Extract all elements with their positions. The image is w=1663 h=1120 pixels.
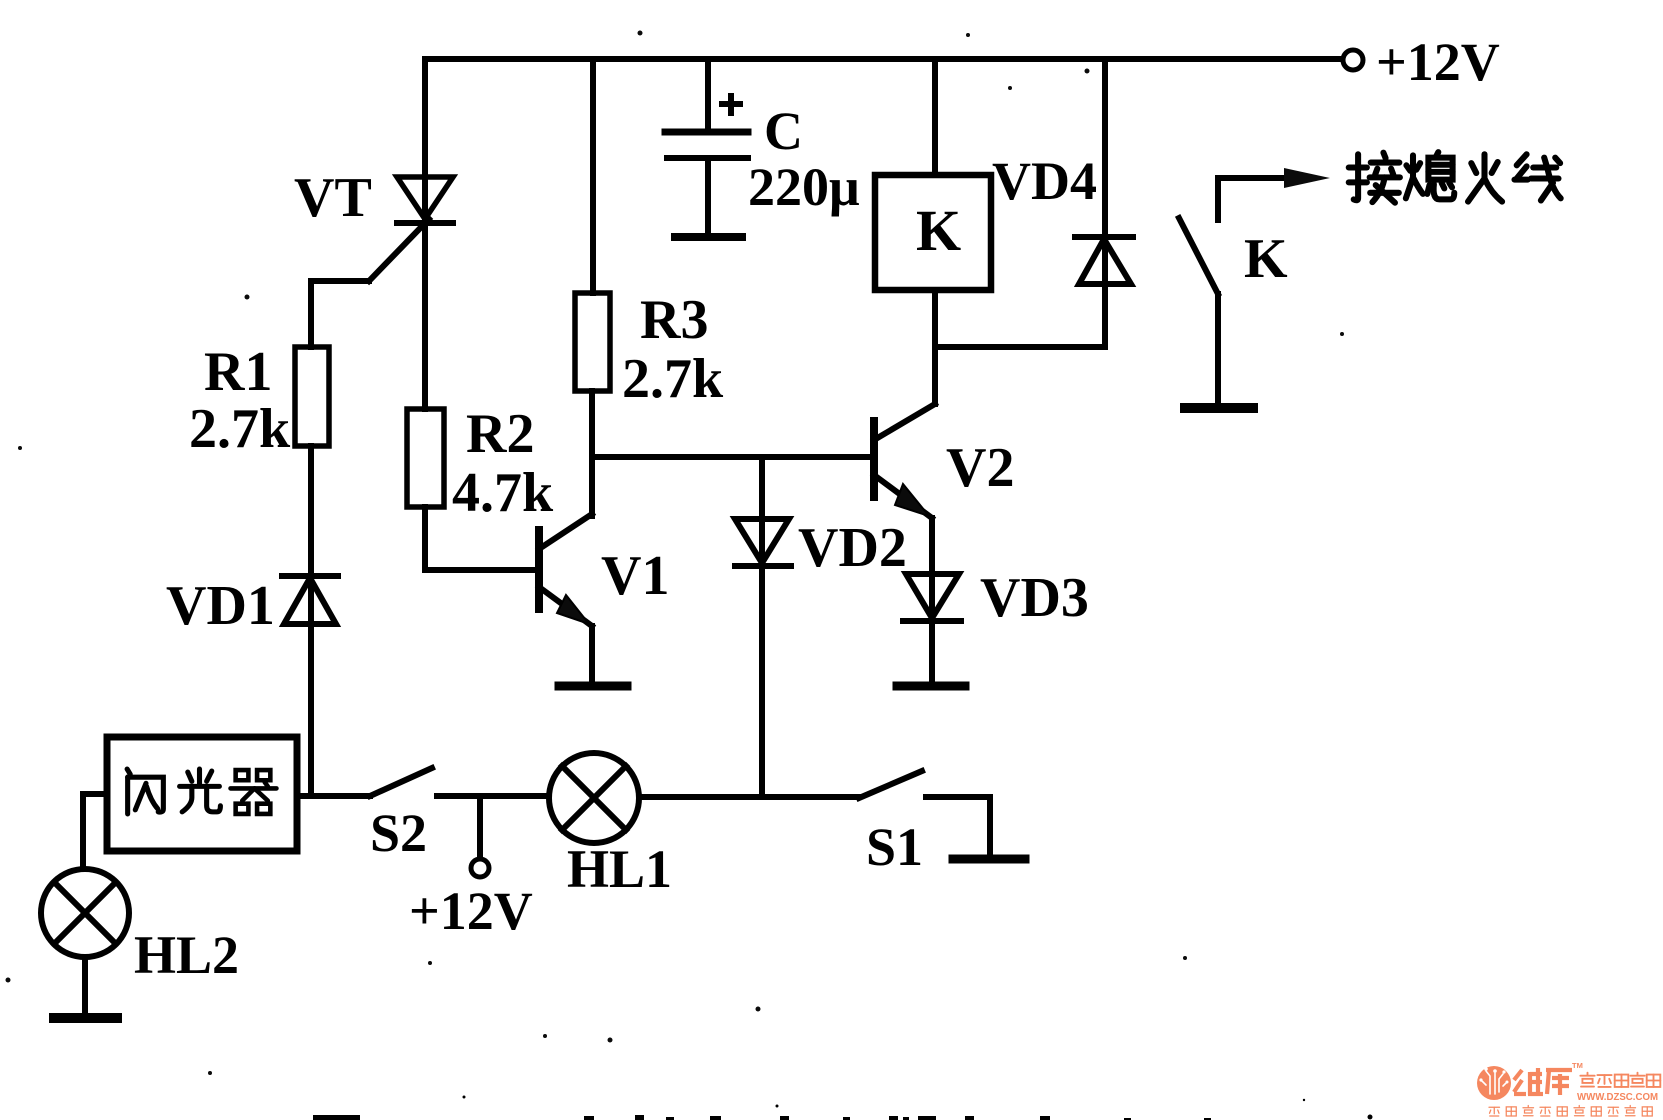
- switch S1 blade: [859, 771, 922, 798]
- wire gate to R1: [308, 281, 314, 347]
- diode VD3: [903, 574, 961, 621]
- wire VD2 drop: [759, 457, 765, 797]
- svg-text:220μ: 220μ: [748, 157, 860, 217]
- node +12V terminal circle: [1343, 50, 1363, 70]
- capacitor C: [665, 59, 748, 237]
- box flasher 闪光器: [107, 737, 297, 851]
- svg-text:S2: S2: [370, 803, 427, 863]
- svg-text:2.7k: 2.7k: [189, 398, 291, 460]
- switch S2 blade: [370, 768, 432, 796]
- svg-text:VT: VT: [294, 167, 372, 229]
- svg-text:VD2: VD2: [798, 517, 907, 579]
- thyristor VT: [311, 177, 453, 409]
- switch K blade: [1179, 218, 1218, 294]
- 专业电子元器件交易网站: [1489, 1106, 1652, 1117]
- wire K switch arrow lead: [1218, 178, 1295, 220]
- diode VD4: [1075, 237, 1133, 284]
- ground VD3: [897, 682, 965, 691]
- diode VD1: [282, 576, 338, 624]
- svg-text:+12V: +12V: [409, 881, 533, 941]
- wire R3 branch from rail: [590, 59, 596, 293]
- svg-text:S1: S1: [866, 817, 923, 877]
- svg-text:HL2: HL2: [134, 925, 239, 985]
- wire R1 to VD1: [308, 446, 314, 794]
- wire HL2 to ground: [82, 957, 88, 1014]
- wire K switch to ground: [1215, 294, 1221, 403]
- label 接熄火线 connect-to-flameout-wire: [1349, 153, 1400, 203]
- svg-text:C: C: [764, 101, 803, 161]
- svg-text:TM: TM: [1572, 1061, 1583, 1070]
- wire flasher right to S2: [297, 793, 370, 799]
- watermark logo 维库电子市场网: [1477, 1061, 1660, 1116]
- wire HL1 to S1: [639, 794, 859, 800]
- label 闪光器 flasher: [127, 769, 163, 814]
- svg-text:HL1: HL1: [567, 839, 672, 899]
- svg-text:V1: V1: [601, 545, 669, 607]
- lamp HL2: [41, 869, 129, 957]
- caption fragment marks (cut-off text at bottom): [313, 1096, 1373, 1120]
- svg-text:V2: V2: [946, 437, 1014, 499]
- ground S1 contact bar: [953, 855, 1025, 864]
- ground HL2: [54, 1013, 117, 1023]
- wire R2 to V1 base: [425, 507, 535, 570]
- relay coil K: [875, 175, 991, 290]
- lamp HL1: [549, 753, 639, 843]
- resistor R2: [407, 409, 444, 507]
- wire junction to VD4 bottom: [935, 344, 1105, 350]
- wire K relay branch from rail: [932, 59, 938, 175]
- wire flasher left to HL2: [83, 794, 107, 869]
- wire +12V terminal drop: [477, 796, 483, 858]
- transistor V2: [874, 347, 935, 682]
- scan speckles: [6, 31, 1345, 1076]
- ground V1: [559, 682, 627, 691]
- wire S1 right contact: [926, 797, 990, 855]
- svg-text:VD4: VD4: [992, 151, 1097, 211]
- 电子市场网: [1580, 1073, 1660, 1087]
- wire K bottom to junction: [932, 290, 938, 404]
- wire S2 to HL1: [437, 793, 549, 799]
- arrow head flameout: [1284, 168, 1330, 188]
- resistor R3: [575, 293, 610, 391]
- svg-text:WWW.DZSC.COM: WWW.DZSC.COM: [1577, 1092, 1658, 1103]
- wire base rail V1-V2: [592, 454, 874, 460]
- ground K switch: [1185, 403, 1253, 413]
- svg-text:R3: R3: [640, 289, 708, 351]
- svg-text:K: K: [916, 198, 961, 263]
- svg-text:2.7k: 2.7k: [622, 348, 724, 410]
- wire VD4 branch from rail: [1102, 59, 1108, 347]
- node +12V lower terminal: [471, 859, 489, 877]
- wire top +12V rail: [425, 56, 1341, 62]
- svg-text:K: K: [1244, 228, 1288, 290]
- wire VT branch from rail: [422, 59, 428, 223]
- svg-text:VD1: VD1: [166, 575, 275, 637]
- svg-text:VD3: VD3: [980, 567, 1089, 629]
- svg-text:+12V: +12V: [1376, 32, 1500, 92]
- diode VD2: [735, 519, 791, 566]
- logo circle: [1477, 1066, 1511, 1100]
- 维库 large: [1514, 1068, 1572, 1095]
- transistor V1: [539, 457, 592, 682]
- resistor R1: [295, 347, 329, 446]
- wire R3 to collector node: [589, 391, 595, 457]
- wire arrow to flameout line: [1295, 175, 1302, 181]
- svg-text:R2: R2: [466, 403, 534, 465]
- svg-text:R1: R1: [204, 341, 272, 403]
- svg-text:4.7k: 4.7k: [452, 462, 554, 524]
